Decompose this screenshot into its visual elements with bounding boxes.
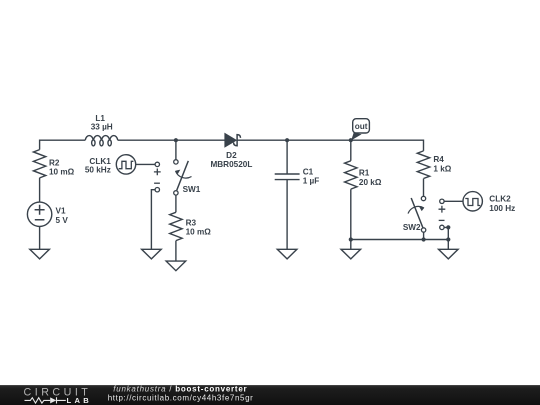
ground under R1	[341, 249, 361, 259]
wire SW1 branch stub	[175, 140, 177, 160]
svg-text:D2: D2	[226, 151, 237, 160]
junction R1 bottom	[349, 237, 353, 241]
wire D2 cathode to R4 corner	[237, 140, 423, 151]
wire R4 bottom to SW2 top	[423, 179, 425, 197]
wire CLK1 output to SW1 plus terminal	[136, 163, 155, 165]
svg-text:out: out	[355, 122, 368, 131]
svg-text:funkathustra / boost-converter: funkathustra / boost-converter	[113, 384, 247, 393]
wire left rail from R2 top to L1	[40, 140, 86, 149]
svg-text:V1: V1	[56, 206, 66, 215]
wire CLK2 minus terminal to rail	[444, 227, 448, 239]
junction at SW1 branch	[174, 138, 178, 142]
wire C1 bottom to ground	[286, 180, 288, 250]
svg-text:10 mΩ: 10 mΩ	[186, 228, 212, 237]
voltage source V1	[27, 202, 51, 226]
svg-text:33 µH: 33 µH	[91, 122, 113, 131]
junction ground node corner	[446, 237, 450, 241]
clock source CLK2	[463, 192, 482, 211]
wire V1 bottom to ground	[39, 227, 41, 250]
junction SW2 bottom	[422, 237, 426, 241]
svg-text:SW2: SW2	[403, 223, 421, 232]
clock source CLK1	[116, 155, 135, 174]
svg-text:100 Hz: 100 Hz	[489, 204, 515, 213]
SW2 control plus terminal	[439, 199, 446, 213]
ground under V1	[30, 249, 50, 259]
svg-text:LAB: LAB	[67, 396, 93, 405]
SW1 control minus terminal	[154, 183, 160, 192]
node out flag	[351, 119, 369, 141]
capacitor C1 plates	[275, 174, 300, 180]
ground under SW2 branch	[439, 249, 459, 259]
wire R2 bottom to V1 top	[39, 178, 41, 202]
svg-text:SW1: SW1	[183, 185, 201, 194]
svg-text:R3: R3	[186, 218, 197, 227]
switch SW2	[408, 196, 426, 232]
wire CLK2 output to SW2 plus terminal	[444, 200, 463, 202]
svg-text:R2: R2	[49, 159, 60, 168]
svg-text:10 mΩ: 10 mΩ	[49, 167, 75, 176]
SW1 control plus terminal	[154, 162, 161, 175]
wire L1 to D2 anode	[118, 139, 225, 141]
junction at R1 out branch	[349, 138, 353, 142]
svg-text:20 kΩ: 20 kΩ	[359, 178, 382, 187]
footer bar	[0, 385, 540, 405]
wire R1 top stub	[350, 140, 352, 161]
wire SW1 bottom to R3 top	[175, 195, 177, 212]
switch SW1	[174, 160, 192, 195]
wire C1 branch stub	[286, 140, 288, 174]
diode D2	[225, 134, 240, 147]
ground under R3	[166, 261, 186, 271]
wire R1 ground stub	[350, 240, 352, 250]
resistor R2	[33, 150, 45, 178]
svg-text:1 µF: 1 µF	[303, 177, 320, 186]
resistor R3	[170, 212, 182, 240]
svg-text:MBR0520L: MBR0520L	[210, 160, 252, 169]
junction CLK2 minus corner	[446, 225, 450, 229]
wire R1 bottom to rail	[350, 189, 352, 239]
svg-text:1 kΩ: 1 kΩ	[433, 164, 451, 173]
wire SW2 bottom stub	[423, 232, 425, 239]
wire bottom rail R1 to ground node	[351, 239, 449, 241]
wire SW1 minus terminal to ground	[151, 190, 155, 250]
svg-text:5 V: 5 V	[56, 216, 69, 225]
svg-text:R4: R4	[433, 155, 444, 164]
inductor L1	[85, 136, 118, 146]
svg-text:50 kHz: 50 kHz	[85, 166, 111, 175]
svg-text:CLK2: CLK2	[489, 195, 511, 204]
junction at C1 branch	[285, 138, 289, 142]
wire SW2 ground stub	[447, 240, 449, 250]
svg-text:http://circuitlab.com/cy44h3fe: http://circuitlab.com/cy44h3fe7n5gr	[108, 393, 254, 402]
svg-text:C1: C1	[303, 167, 314, 176]
ground under C1	[277, 249, 297, 259]
wire R3 bottom to ground	[175, 241, 177, 261]
SW2 control minus terminal	[439, 220, 445, 229]
resistor R1	[345, 161, 357, 189]
svg-text:R1: R1	[359, 168, 370, 177]
ground under CLK1 minus	[142, 249, 162, 259]
CircuitLab logo resistor-diode squiggle	[25, 397, 66, 403]
resistor R4	[417, 151, 429, 179]
